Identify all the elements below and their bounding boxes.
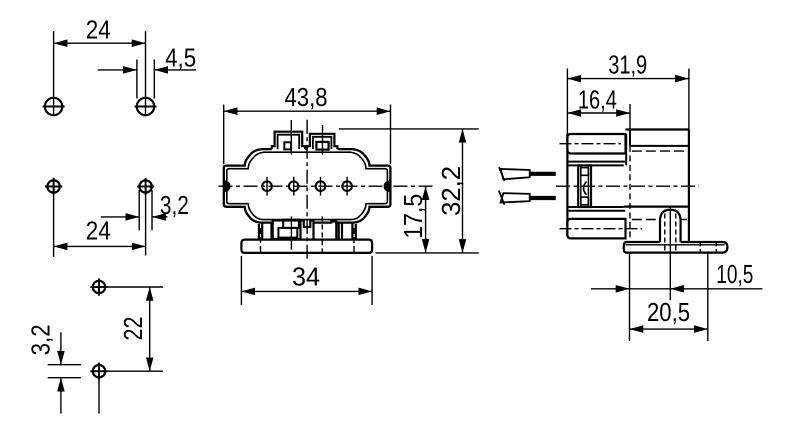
dim 10,5 arrow right <box>670 288 684 290</box>
svg-text:20,5: 20,5 <box>647 299 690 327</box>
svg-text:22: 22 <box>120 317 148 341</box>
bottom tab centerline <box>560 228 643 230</box>
aux line pin2 top <box>290 120 292 155</box>
bottom wall A <box>259 223 262 240</box>
wire 2 insulation <box>501 193 530 202</box>
side centerline <box>556 185 699 187</box>
hole C2 <box>93 365 105 377</box>
hole C2 extension line <box>99 370 163 372</box>
front step lines <box>567 162 625 211</box>
hole A1 cross <box>43 106 65 108</box>
dim 34 ext lines <box>241 256 372 305</box>
dim 32,2 ext bottom <box>376 252 479 254</box>
hole A2 cross <box>135 106 157 108</box>
top tab right inner wall <box>313 137 332 149</box>
hole B2 cross <box>137 178 154 195</box>
bottom box1 inner rect <box>278 228 297 238</box>
screw boss dome <box>660 210 681 242</box>
bottom tab block <box>567 219 625 239</box>
svg-text:34: 34 <box>292 264 320 292</box>
pin hole 2 <box>289 181 299 191</box>
pin2 line bottom <box>290 216 292 249</box>
flange inner line <box>626 244 725 246</box>
contact box inner lines <box>581 165 589 207</box>
right ear pip <box>384 181 389 191</box>
bottom box1 <box>273 221 301 239</box>
dim 10,5 arrow left <box>616 288 630 290</box>
bottom box1 top square <box>283 220 299 228</box>
front column right edge <box>625 134 627 165</box>
tangent lines 4,5 <box>137 60 154 99</box>
dim 43,8 line <box>224 110 391 112</box>
flange <box>624 242 728 253</box>
pin hole 4 <box>342 181 352 191</box>
dim 32,2 line <box>462 129 464 253</box>
main block hidden line bottom <box>632 219 687 221</box>
hole A1 <box>45 98 62 115</box>
body top plateau <box>262 148 353 150</box>
wire 1 end tick <box>499 167 505 181</box>
tangent lines 3,2 bottom <box>48 365 81 378</box>
dim 3,2 leader top <box>60 332 62 364</box>
base dashed line left <box>260 228 262 252</box>
pin hole 1 <box>262 181 272 191</box>
top tab right <box>307 134 337 149</box>
dim 43,8 ext lines <box>224 105 391 165</box>
ext line flange left <box>629 253 631 341</box>
hole C2 lower centerline <box>98 380 100 414</box>
wire 2 conductor <box>530 196 556 200</box>
main block hidden line top <box>632 150 686 152</box>
contact spring <box>584 182 587 195</box>
dim 10,5 line <box>591 288 762 290</box>
wire 1 insulation <box>501 169 530 179</box>
hole B1 <box>47 180 59 192</box>
dim 17,5 line <box>425 186 427 253</box>
svg-text:32,2: 32,2 <box>438 166 466 216</box>
front face line <box>566 69 568 135</box>
dim 22 line <box>149 287 151 371</box>
tangent lines 3,2 <box>139 190 152 230</box>
dim 3,2 leader left <box>101 216 140 218</box>
aux line pin3 top <box>322 125 324 155</box>
left ear pip <box>225 181 230 191</box>
hole A1 extension line <box>53 31 55 116</box>
main block mid line <box>624 206 689 208</box>
main block right edge <box>688 69 690 130</box>
bottom wall B <box>270 223 272 239</box>
hole C2 cross <box>90 363 107 380</box>
main block step edge <box>629 130 631 146</box>
dim 24 line <box>54 245 146 247</box>
body bottom plateau <box>262 221 353 223</box>
dim 4,5 leader left <box>98 69 137 71</box>
svg-text:31,9: 31,9 <box>608 52 647 80</box>
svg-text:43,8: 43,8 <box>285 84 328 112</box>
base plate <box>241 240 372 253</box>
dim 3,2 leader right <box>152 216 168 218</box>
hole A2 <box>137 98 154 115</box>
hole B1 cross <box>45 178 62 195</box>
boss centerline <box>669 206 671 300</box>
dim 34 line <box>241 290 372 292</box>
hole B2 extension line <box>145 195 147 256</box>
bottom T piece <box>301 221 314 239</box>
horizontal centerline <box>219 185 434 187</box>
hole B2 <box>139 180 151 192</box>
ext line slot center <box>707 253 709 341</box>
dim 31,9 line <box>567 78 689 80</box>
main block interior solid line <box>630 145 689 147</box>
dim 16,4 line <box>567 112 630 114</box>
flange slot hidden lines <box>700 243 716 253</box>
dim 16,4 ext right <box>629 104 631 130</box>
body outline left shoulder and ear <box>224 149 262 223</box>
svg-text:3,2: 3,2 <box>160 192 189 220</box>
labels left details <box>28 17 197 356</box>
top tab centerline <box>560 143 622 145</box>
wire 2 end tick <box>499 190 505 204</box>
svg-text:4,5: 4,5 <box>165 45 196 73</box>
svg-text:17,5: 17,5 <box>400 194 428 239</box>
svg-text:3,2: 3,2 <box>28 324 56 355</box>
hole C1 cross <box>90 278 107 295</box>
hole A2 extension line <box>145 31 147 116</box>
bottom foot C <box>331 221 336 240</box>
wire 1 conductor <box>530 172 556 176</box>
main block top <box>626 128 689 130</box>
labels front view <box>285 84 466 292</box>
hole C1 extension line <box>99 286 163 288</box>
dim 24 line <box>54 42 146 44</box>
bottom wall E <box>352 223 355 240</box>
top tab right inner box <box>316 142 328 150</box>
top tab left inner box <box>284 142 291 149</box>
top tab block <box>567 134 625 154</box>
hole C1 <box>93 281 105 293</box>
dim 3,2 leader bottom <box>60 378 62 414</box>
top tab left inner wall <box>278 135 300 149</box>
labels side view <box>578 52 753 327</box>
svg-text:16,4: 16,4 <box>578 87 617 115</box>
dim 4,5 leader right <box>154 69 196 71</box>
pin hole 3 <box>316 181 326 191</box>
pin3 dashed line bottom <box>321 216 323 252</box>
svg-text:24: 24 <box>86 17 111 45</box>
main block step hidden <box>629 146 631 241</box>
body outline right shoulder and ear <box>352 149 390 223</box>
body inner contour <box>227 152 388 219</box>
base dashed line right <box>353 228 355 252</box>
vertical centerline <box>306 120 308 262</box>
top tab left <box>272 132 305 149</box>
contact box <box>578 165 591 207</box>
boss hole hidden lines <box>665 214 676 253</box>
bottom wall D <box>339 222 342 240</box>
dim 32,2 ext top <box>339 128 479 130</box>
dim 20,5 line <box>630 328 708 330</box>
svg-text:24: 24 <box>86 218 111 246</box>
hole B1 extension line <box>53 195 55 257</box>
svg-text:10,5: 10,5 <box>716 261 753 289</box>
